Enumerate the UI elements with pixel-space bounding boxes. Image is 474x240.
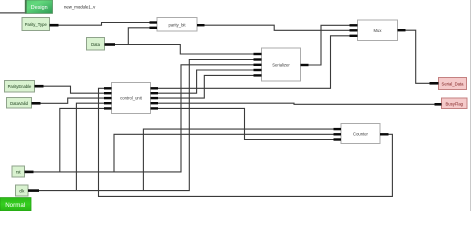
input port rst bbox=[12, 166, 34, 177]
wire net rst branch to Counter pin2 bbox=[114, 134, 334, 172]
svg-text:clk: clk bbox=[19, 189, 25, 194]
svg-text:parity_bit: parity_bit bbox=[169, 22, 187, 27]
wire net ParityEnable to control_unit pin2 bbox=[44, 86, 105, 93]
input port Data bbox=[87, 38, 116, 51]
pins of Mux bbox=[350, 25, 406, 36]
output port BusyFlag bbox=[435, 98, 468, 109]
block Mux U3 bbox=[358, 20, 398, 41]
wire net Serializer output to Mux pin1 bbox=[309, 25, 350, 65]
UI Design tab button bbox=[25, 0, 52, 13]
block control_unit U4 bbox=[112, 83, 151, 114]
wire net DataValid to control_unit pin3 bbox=[41, 98, 105, 103]
wire net clk branch to control_unit pin4 bbox=[76, 103, 104, 190]
wire net Counter output feedback to control_unit pin1 bbox=[99, 88, 393, 196]
pins of parity_bit bbox=[150, 23, 205, 28]
svg-text:ParityEnable: ParityEnable bbox=[8, 84, 32, 89]
svg-text:Mux: Mux bbox=[374, 28, 383, 33]
svg-text:Serializer: Serializer bbox=[272, 62, 290, 67]
pins of Serializer bbox=[254, 54, 309, 75]
wire net Data trunk to Serializer pin1 bbox=[115, 45, 254, 55]
wire net rst trunk bbox=[34, 65, 254, 172]
wire net Parity_Type to parity_bit pin1 bbox=[59, 23, 150, 26]
input port clk bbox=[16, 185, 40, 196]
wire net clk branch to Counter pin1 bbox=[143, 129, 333, 191]
wire net control_unit out5 to Counter pin3 bbox=[158, 108, 334, 139]
svg-text:new_module1..v: new_module1..v bbox=[64, 4, 96, 9]
pins of control_unit bbox=[104, 88, 158, 108]
wire net Mux output to Serial_Data bbox=[406, 30, 430, 83]
UI right pane separator bbox=[470, 0, 472, 211]
wire net parity_bit output to Mux pin2 bbox=[205, 25, 350, 30]
svg-text:control_unit: control_unit bbox=[120, 96, 142, 101]
wire net rst branch to control_unit pin5 bbox=[60, 108, 104, 171]
block Serializer U2 bbox=[262, 48, 301, 81]
wire net control_unit out4 to BusyFlag bbox=[158, 103, 435, 104]
wire net control_unit out3 to Serializer pin5 bbox=[158, 75, 254, 98]
input port ParityEnable bbox=[5, 81, 44, 93]
input port Parity_Type bbox=[22, 18, 59, 31]
wire net Data branch to parity_bit pin2 bbox=[128, 28, 149, 45]
pins of Counter bbox=[334, 129, 389, 139]
output port Serial_Data bbox=[430, 78, 467, 90]
svg-text:DataValid: DataValid bbox=[10, 101, 29, 106]
UI filename text bbox=[64, 4, 96, 9]
svg-text:Counter: Counter bbox=[353, 131, 369, 136]
wire net control_unit out1 to Mux pin3 bbox=[158, 36, 350, 89]
svg-text:Parity_Type: Parity_Type bbox=[25, 22, 48, 27]
wire net clk trunk bbox=[39, 60, 254, 191]
input port DataValid bbox=[7, 98, 41, 109]
svg-text:Design: Design bbox=[31, 5, 48, 11]
block parity_bit U1 bbox=[157, 18, 197, 32]
svg-text:BusyFlag: BusyFlag bbox=[446, 101, 464, 106]
svg-text:Data: Data bbox=[91, 42, 101, 47]
UI Normal button bottom-left bbox=[0, 198, 31, 211]
block Counter U5 bbox=[341, 124, 380, 144]
UI white tab top-left bbox=[0, 0, 26, 13]
wire net control_unit out2 to Serializer pin4 bbox=[158, 70, 254, 93]
svg-text:Serial_Data: Serial_Data bbox=[442, 82, 465, 87]
svg-text:Normal: Normal bbox=[5, 202, 25, 209]
